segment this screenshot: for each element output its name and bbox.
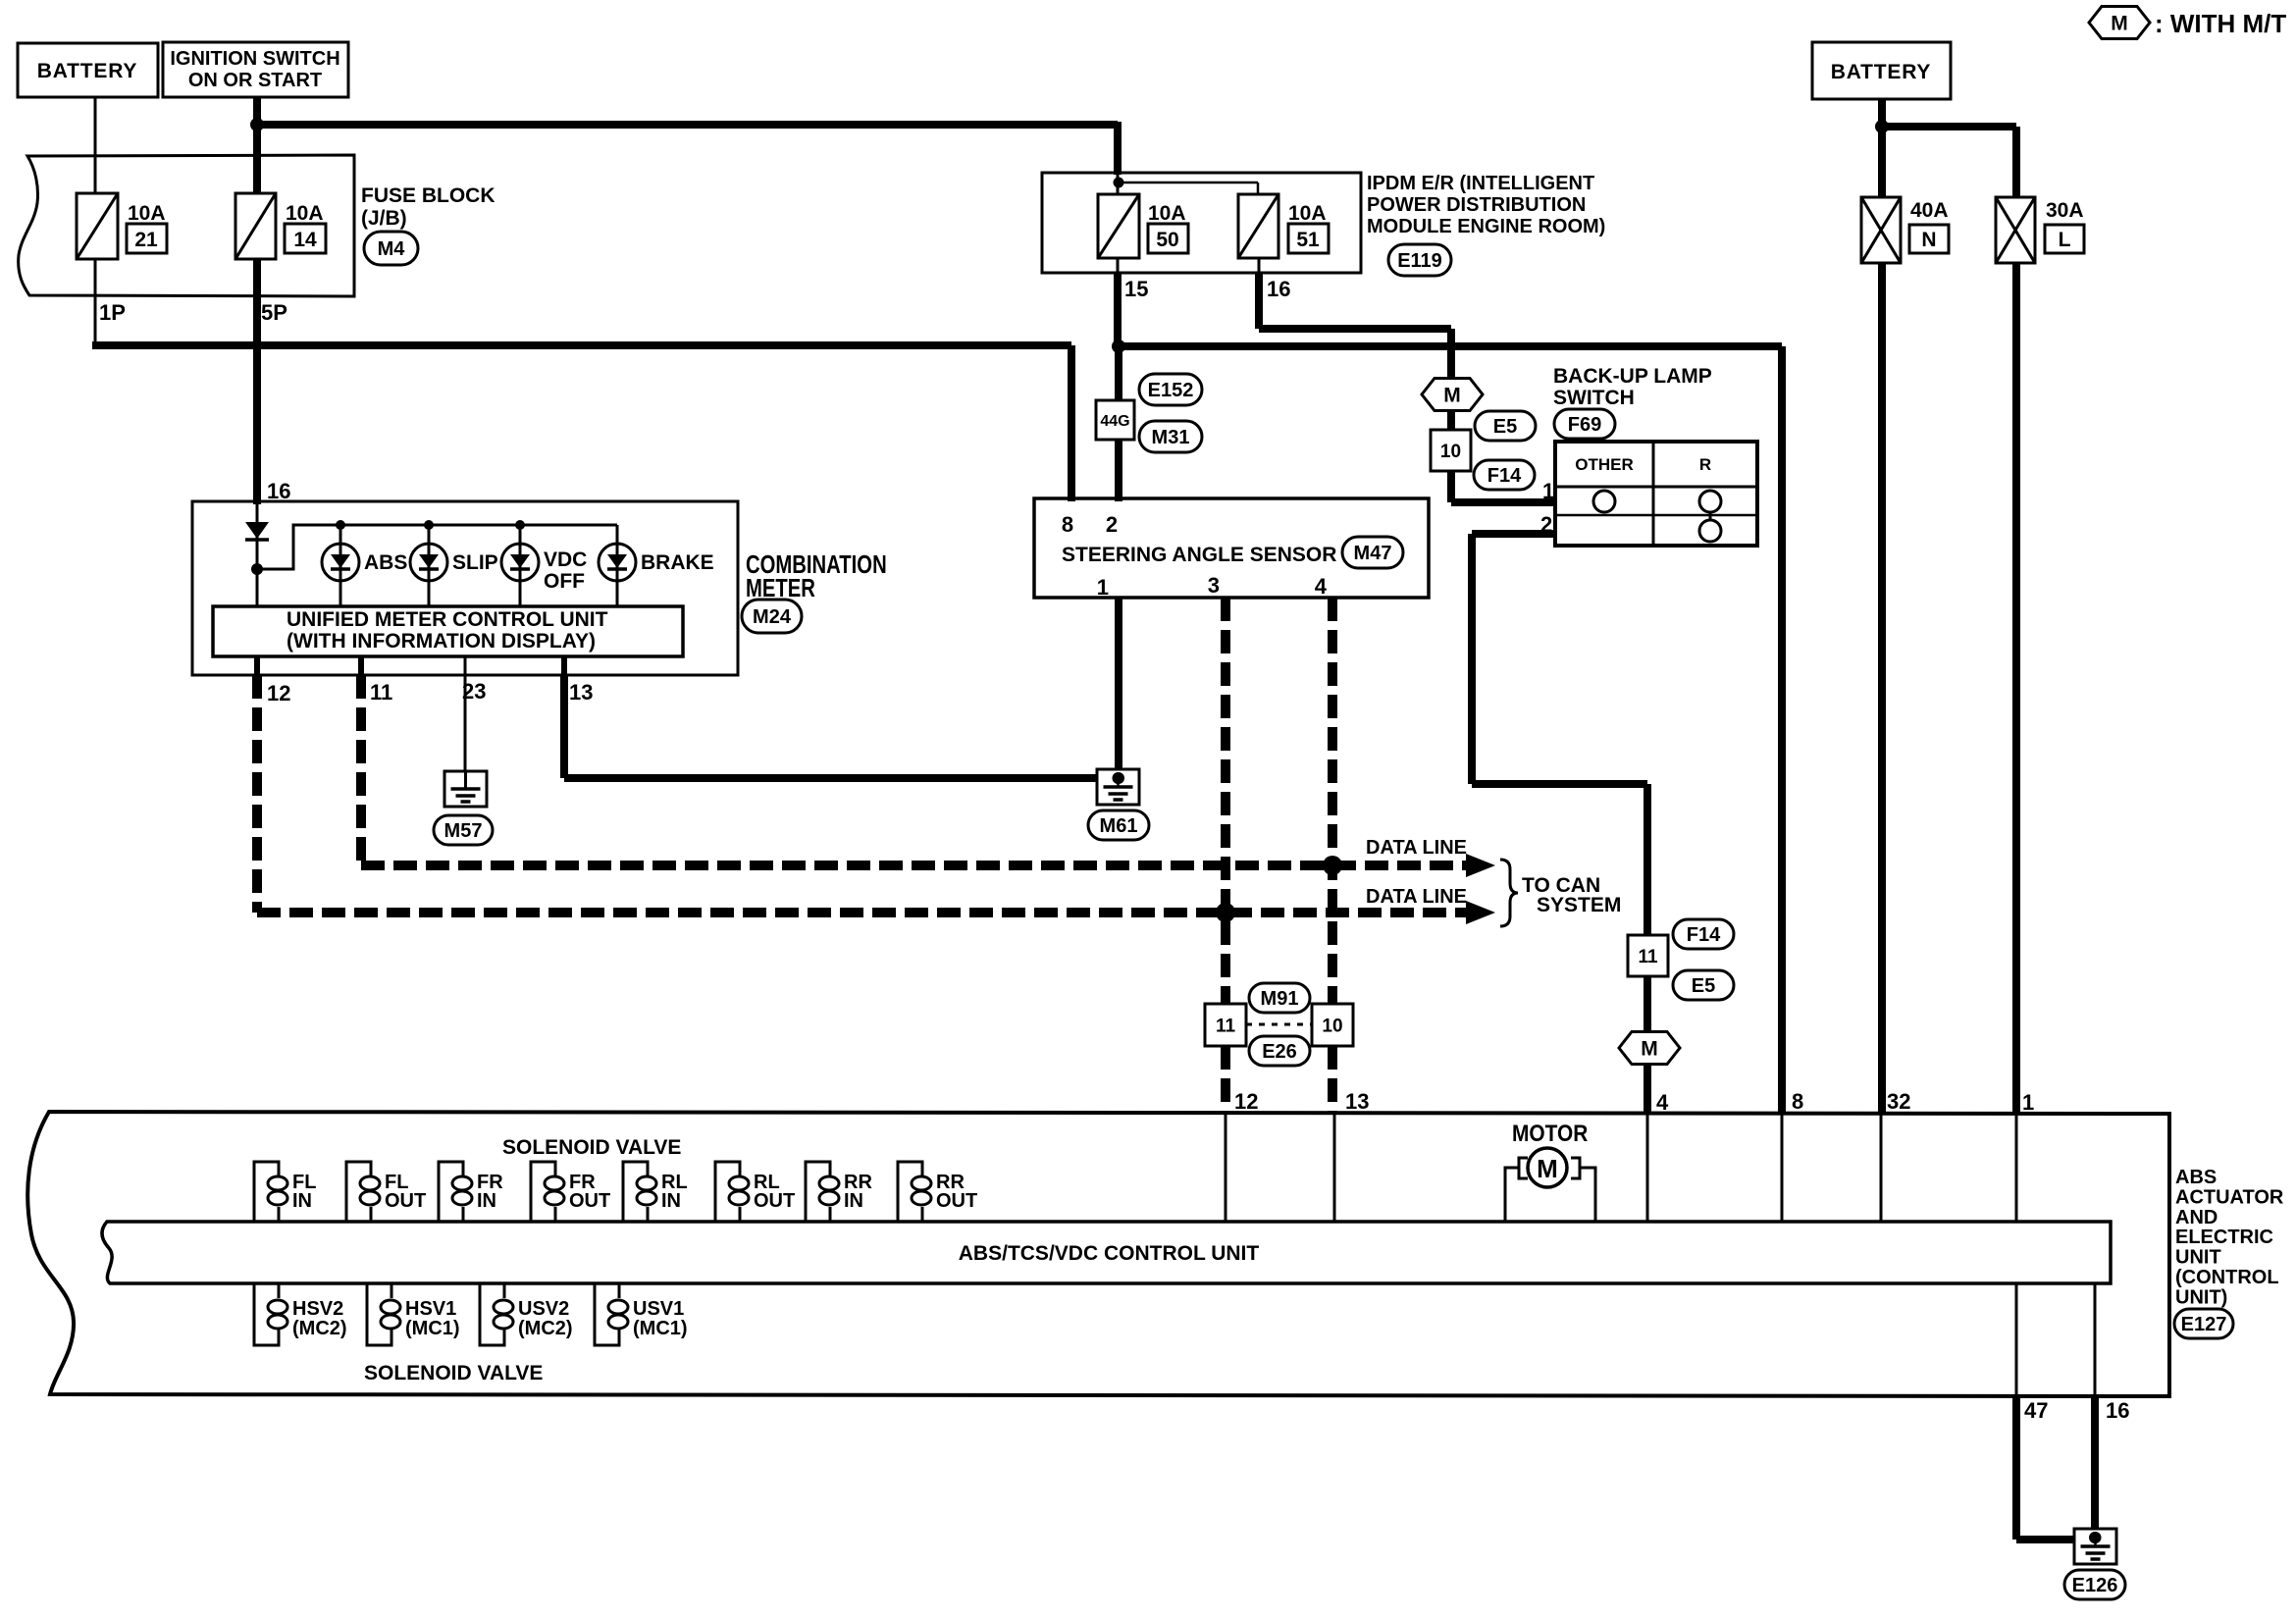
connector M47 oval	[1342, 537, 1403, 568]
svg-text:10: 10	[1440, 442, 1461, 462]
wire connector 11 to hexagon M	[1644, 976, 1651, 1033]
svg-text:ON OR START: ON OR START	[188, 70, 322, 91]
svg-text:OFF: OFF	[544, 570, 585, 593]
wire battery to fuse block	[94, 97, 97, 195]
motor brackets	[1519, 1158, 1580, 1178]
svg-text:IN: IN	[844, 1190, 863, 1212]
wire switch pin 2 down to ABS pin 4	[1472, 530, 1555, 538]
svg-text:ELECTRIC: ELECTRIC	[2175, 1227, 2273, 1248]
solenoid valve RL OUT	[715, 1162, 740, 1222]
svg-text:10A: 10A	[128, 202, 166, 225]
svg-text:10A: 10A	[1288, 202, 1327, 225]
ABS internal wires below control unit	[2015, 1283, 2018, 1396]
svg-text:1: 1	[2022, 1090, 2034, 1115]
wire pin 12 dashed (CAN-L)	[252, 675, 262, 913]
svg-text:SYSTEM: SYSTEM	[1537, 894, 1621, 916]
svg-text:12: 12	[1234, 1089, 1258, 1114]
svg-text:13: 13	[1345, 1089, 1369, 1114]
svg-text:AND: AND	[2175, 1207, 2218, 1228]
connector M57 oval	[434, 815, 493, 845]
svg-text:ABS: ABS	[364, 551, 407, 574]
fusible link N (40A)	[1861, 197, 1901, 263]
svg-text:1: 1	[1542, 479, 1554, 503]
svg-text:1P: 1P	[99, 300, 126, 325]
solenoid valve RR OUT	[898, 1162, 922, 1222]
wire 1P run to steering angle sensor pin 8	[92, 341, 1071, 349]
svg-text:(CONTROL: (CONTROL	[2175, 1267, 2279, 1288]
diode (meter)	[245, 522, 269, 539]
wire pin 11 dashed (CAN-H)	[356, 675, 366, 865]
fuse 51 (10A)	[1238, 194, 1278, 258]
svg-text:E152: E152	[1148, 380, 1194, 401]
svg-text:STEERING ANGLE SENSOR: STEERING ANGLE SENSOR	[1062, 544, 1336, 566]
svg-text:51: 51	[1296, 229, 1320, 251]
svg-text:SLIP: SLIP	[452, 551, 498, 574]
connector 10 square	[1431, 430, 1471, 471]
IPDM E/R box	[1042, 173, 1361, 273]
svg-text:(MC1): (MC1)	[405, 1318, 460, 1339]
svg-text:30A: 30A	[2046, 199, 2084, 222]
node IPDM feed	[1117, 173, 1120, 194]
connector 11 square (F14/E5)	[1628, 935, 1668, 976]
svg-text:M61: M61	[1100, 815, 1138, 837]
svg-text:OUT: OUT	[754, 1190, 795, 1212]
svg-text:UNIT): UNIT)	[2175, 1286, 2227, 1308]
svg-text:DATA LINE: DATA LINE	[1366, 837, 1467, 859]
svg-text:11: 11	[1216, 1017, 1236, 1037]
svg-text:USV1: USV1	[633, 1298, 684, 1320]
connector M31 oval	[1139, 421, 1202, 452]
svg-text:IN: IN	[661, 1190, 681, 1212]
connector E5 oval	[1475, 411, 1536, 441]
svg-text:M57: M57	[444, 820, 483, 842]
svg-text:ACTUATOR: ACTUATOR	[2175, 1186, 2284, 1208]
svg-text:BACK-UP LAMP: BACK-UP LAMP	[1553, 365, 1712, 388]
svg-text:E127: E127	[2181, 1314, 2227, 1335]
svg-text:E5: E5	[1692, 975, 1715, 997]
ground E126	[2074, 1529, 2116, 1564]
svg-text:M47: M47	[1354, 543, 1392, 564]
ABS/TCS/VDC control unit box	[102, 1222, 2111, 1283]
svg-text:F14: F14	[1487, 465, 1522, 487]
svg-text:4: 4	[1315, 574, 1328, 599]
wire pin15 down	[1114, 273, 1122, 349]
solenoid valve USV2 (MC2)	[480, 1283, 504, 1345]
wire pin 13 to ground M61	[560, 675, 568, 778]
svg-text:E5: E5	[1493, 416, 1517, 438]
switch contact circle OTHER	[1593, 491, 1615, 512]
svg-text:IGNITION SWITCH: IGNITION SWITCH	[170, 48, 339, 70]
svg-text:E26: E26	[1262, 1041, 1297, 1063]
svg-text:R: R	[1699, 455, 1711, 474]
svg-text:MODULE ENGINE ROOM): MODULE ENGINE ROOM)	[1367, 216, 1605, 237]
svg-text:HSV1: HSV1	[405, 1298, 456, 1320]
svg-text:ABS/TCS/VDC CONTROL UNIT: ABS/TCS/VDC CONTROL UNIT	[959, 1242, 1260, 1265]
arrow lower data line	[1466, 901, 1495, 924]
svg-text:15: 15	[1124, 277, 1148, 301]
svg-text:BATTERY: BATTERY	[37, 60, 137, 82]
connector E126 oval	[2064, 1570, 2125, 1599]
LED SLIP warning lamp	[410, 544, 447, 581]
wire 44G to steering pin 2	[1115, 440, 1122, 501]
node CAN junction lower (pin3)	[1216, 903, 1235, 922]
wire fuse50 bottom	[1117, 258, 1120, 273]
wire hexagon to connector 10	[1447, 411, 1455, 432]
connector 10 square (M91/E26)	[1312, 1004, 1353, 1046]
wire to fuse 51	[1119, 182, 1258, 184]
svg-text:OUT: OUT	[569, 1190, 610, 1212]
svg-text:(J/B): (J/B)	[361, 207, 407, 230]
node diode junction	[251, 563, 263, 575]
svg-text:32: 32	[1887, 1089, 1910, 1114]
arrow upper data line	[1466, 854, 1495, 877]
solenoid valve HSV1 (MC1)	[367, 1283, 391, 1345]
fusible link L (30A)	[1996, 197, 2035, 263]
connector E119 oval	[1388, 244, 1451, 276]
LED BRAKE warning lamp	[599, 544, 636, 581]
svg-text:5P: 5P	[261, 300, 287, 325]
svg-text:47: 47	[2024, 1398, 2048, 1423]
wire pin 16 to ground E126	[2091, 1396, 2099, 1533]
wire steering pin 3 dashed	[1221, 598, 1230, 1006]
solenoid valve FL IN	[254, 1162, 279, 1222]
connector F14 oval	[1474, 460, 1535, 490]
svg-text:FUSE BLOCK: FUSE BLOCK	[361, 184, 496, 207]
solenoid valve FR IN	[439, 1162, 463, 1222]
LED VDC OFF warning lamp	[501, 544, 539, 581]
svg-text:UNIFIED METER CONTROL UNIT: UNIFIED METER CONTROL UNIT	[287, 608, 608, 631]
node CAN junction upper (pin4)	[1323, 856, 1342, 875]
svg-text:50: 50	[1156, 229, 1178, 251]
svg-text:OUT: OUT	[385, 1190, 426, 1212]
svg-text:IPDM E/R (INTELLIGENT: IPDM E/R (INTELLIGENT	[1367, 173, 1594, 194]
svg-text:12: 12	[267, 681, 290, 705]
wire connector 10 to ABS pin 13 dashed	[1328, 1046, 1337, 1114]
svg-text:BRAKE: BRAKE	[641, 551, 714, 574]
node battery junction	[1875, 120, 1889, 133]
svg-text:M24: M24	[753, 606, 792, 628]
svg-text:N: N	[1921, 229, 1936, 251]
svg-text:10: 10	[1322, 1017, 1342, 1037]
svg-text:8: 8	[1062, 512, 1073, 537]
svg-text:16: 16	[267, 479, 290, 503]
dotted connector link	[1246, 1023, 1312, 1026]
svg-text:: WITH M/T: : WITH M/T	[2155, 9, 2286, 38]
LED ABS warning lamp	[322, 544, 359, 581]
steering angle sensor box	[1034, 498, 1429, 598]
svg-text:F14: F14	[1687, 924, 1721, 946]
wire 5P to combination meter pin 16	[253, 259, 261, 504]
wire connector 11 to ABS pin 12 dashed	[1221, 1046, 1230, 1114]
battery (right) supply box	[1812, 42, 1951, 99]
LED wires down to control unit	[339, 525, 342, 606]
wire steering pin1 to ground M61	[1115, 598, 1122, 775]
wire hexagon to ABS pin 4	[1644, 1065, 1651, 1114]
wire fuse L to ABS pin 1	[2012, 263, 2020, 1114]
connector E152 oval	[1139, 374, 1202, 405]
fuse block M4 box	[19, 155, 354, 296]
svg-text:F69: F69	[1568, 414, 1601, 436]
combination meter box	[192, 501, 738, 675]
svg-text:SOLENOID VALVE: SOLENOID VALVE	[502, 1136, 681, 1159]
svg-text:8: 8	[1792, 1089, 1803, 1114]
svg-text:E126: E126	[2072, 1575, 2118, 1596]
svg-text:E119: E119	[1397, 250, 1442, 272]
ground M61	[1097, 769, 1139, 805]
connector 44G square	[1096, 400, 1134, 440]
svg-text:1: 1	[1097, 575, 1109, 600]
motor M circle	[1528, 1148, 1567, 1187]
svg-text:13: 13	[569, 680, 593, 705]
svg-text:(MC1): (MC1)	[633, 1318, 688, 1339]
connector E127 oval	[2174, 1309, 2233, 1338]
wire junction to ABS pin 8	[1119, 342, 1782, 350]
node ignition junction	[250, 118, 264, 131]
wire pin 47 to ground E126	[2012, 1396, 2020, 1540]
svg-text:40A: 40A	[1910, 199, 1949, 222]
wire fuse N to ABS pin 32	[1878, 263, 1886, 1114]
fuse 14 (10A)	[253, 155, 261, 196]
ABS actuator box	[27, 1112, 2169, 1396]
solenoid valve FR OUT	[531, 1162, 555, 1222]
meter pin stubs	[254, 656, 260, 675]
wire pin16 down-right to back-up lamp switch	[1258, 258, 1261, 273]
svg-text:M: M	[2111, 13, 2128, 35]
svg-text:SWITCH: SWITCH	[1553, 387, 1635, 409]
connector F69 oval	[1554, 409, 1615, 439]
motor leads	[1505, 1168, 1595, 1222]
svg-text:METER: METER	[746, 574, 815, 602]
svg-text:SOLENOID VALVE: SOLENOID VALVE	[364, 1362, 543, 1384]
svg-text:IN: IN	[292, 1190, 312, 1212]
svg-text:DATA LINE: DATA LINE	[1366, 886, 1467, 908]
solenoid valve FL OUT	[346, 1162, 371, 1222]
wire meter pin16 internal + diode	[256, 501, 259, 608]
svg-text:10A: 10A	[286, 202, 324, 225]
svg-text:IN: IN	[477, 1190, 496, 1212]
data line lower dashed	[257, 908, 1470, 917]
svg-text:14: 14	[293, 229, 317, 251]
wire junction to 44G	[1115, 346, 1122, 402]
legend hexagon M	[2089, 7, 2150, 39]
svg-text:(MC2): (MC2)	[518, 1318, 573, 1339]
connector M24 oval	[742, 600, 802, 633]
svg-text:16: 16	[2106, 1398, 2129, 1423]
solenoid valve HSV2 (MC2)	[254, 1283, 279, 1345]
svg-text:BATTERY: BATTERY	[1831, 61, 1931, 83]
wire fuse21 to 1P	[94, 259, 97, 345]
svg-text:OTHER: OTHER	[1575, 455, 1634, 474]
wire pin 23 to ground M57	[464, 675, 467, 775]
svg-text:21: 21	[134, 229, 158, 251]
hexagon M (with M/T) lower	[1619, 1032, 1680, 1065]
svg-text:M: M	[1641, 1038, 1658, 1061]
svg-text:11: 11	[1638, 947, 1658, 967]
ABS internal wires to control unit	[1225, 1114, 1227, 1222]
svg-text:44G: 44G	[1100, 413, 1129, 430]
connector F14 oval (lower)	[1673, 919, 1734, 949]
connector E5 oval (lower)	[1673, 970, 1734, 1000]
svg-text:ABS: ABS	[2175, 1167, 2217, 1188]
fuse 50 (10A)	[1098, 194, 1139, 258]
wire ignition switch down	[253, 97, 261, 157]
svg-text:(WITH INFORMATION DISPLAY): (WITH INFORMATION DISPLAY)	[287, 630, 596, 653]
svg-text:M: M	[1443, 385, 1461, 407]
svg-text:POWER DISTRIBUTION: POWER DISTRIBUTION	[1367, 194, 1586, 216]
solenoid valve RL IN	[623, 1162, 648, 1222]
wire junction to fuse L	[1882, 123, 2016, 131]
node junction pin15/bus	[1112, 339, 1125, 353]
connector 11 square (M91/E26)	[1205, 1004, 1246, 1046]
svg-text:10A: 10A	[1148, 202, 1186, 225]
svg-text:HSV2: HSV2	[292, 1298, 343, 1320]
svg-text:UNIT: UNIT	[2175, 1247, 2221, 1269]
svg-text:M: M	[1537, 1154, 1558, 1183]
svg-text:11: 11	[370, 680, 392, 705]
battery (left) supply box	[18, 43, 158, 97]
svg-text:M4: M4	[378, 238, 406, 260]
wire steering pin 4 dashed	[1328, 598, 1337, 1006]
svg-text:MOTOR: MOTOR	[1512, 1121, 1588, 1147]
ground M57	[444, 771, 487, 807]
hexagon M (with M/T) upper	[1422, 379, 1483, 411]
fuse 21 (10A)	[94, 177, 97, 196]
data line upper dashed	[361, 861, 1470, 870]
svg-text:USV2: USV2	[518, 1298, 569, 1320]
back-up lamp switch table	[1555, 442, 1757, 546]
wire to LED bus	[257, 525, 617, 569]
wire junction to IPDM (top bus)	[257, 121, 1118, 129]
svg-text:OUT: OUT	[936, 1190, 977, 1212]
wire connector 10 to switch pin 1	[1447, 471, 1455, 502]
solenoid valve RR IN	[806, 1162, 830, 1222]
ignition switch supply box	[163, 42, 348, 97]
svg-text:(MC2): (MC2)	[292, 1318, 347, 1339]
solenoid valve USV1 (MC1)	[595, 1283, 619, 1345]
svg-text:3: 3	[1208, 573, 1220, 598]
connector M91 oval	[1249, 983, 1310, 1013]
wire battery down	[1878, 99, 1886, 198]
svg-text:M31: M31	[1152, 427, 1190, 448]
connector M61 oval	[1088, 810, 1149, 840]
svg-text:L: L	[2059, 229, 2071, 251]
svg-text:2: 2	[1106, 512, 1118, 537]
connector M4 oval	[364, 232, 418, 265]
connector E26 oval	[1249, 1036, 1310, 1066]
svg-text:16: 16	[1267, 277, 1290, 301]
brace to CAN system	[1500, 860, 1518, 926]
svg-text:VDC: VDC	[544, 548, 587, 571]
switch contact circles R	[1699, 491, 1721, 512]
svg-text:4: 4	[1656, 1090, 1669, 1115]
node bus dot VDC	[515, 520, 525, 530]
svg-text:M91: M91	[1261, 988, 1299, 1010]
node bus dot ABS	[336, 520, 345, 530]
unified meter control unit box	[213, 606, 683, 656]
node bus dot SLIP	[424, 520, 434, 530]
